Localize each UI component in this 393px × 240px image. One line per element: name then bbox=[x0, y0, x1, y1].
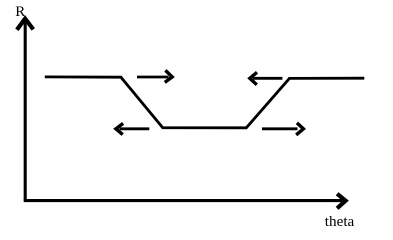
svg-text:theta: theta bbox=[325, 214, 355, 230]
arrow right (upper left, pointing right) shaft bbox=[137, 76, 169, 79]
arrow left (lower left, pointing left) shaft bbox=[120, 127, 150, 130]
arrow left (upper right, pointing left) shaft bbox=[253, 77, 282, 80]
horizontal axis arrowhead bbox=[337, 194, 346, 209]
curve R(theta): left plateau, descent, well bottom, ascent, right plateau bbox=[45, 77, 365, 128]
arrow right (lower right) head bbox=[296, 123, 303, 135]
arrow right (lower right, pointing right) shaft bbox=[262, 127, 298, 130]
vertical axis R (shaft) bbox=[24, 20, 27, 201]
arrow right (upper left) head bbox=[165, 70, 172, 82]
horizontal axis theta (shaft) bbox=[24, 199, 342, 202]
arrow left (upper right) head bbox=[250, 72, 257, 84]
arrow left (lower left) head bbox=[116, 123, 123, 134]
vertical axis arrowhead bbox=[17, 19, 33, 30]
